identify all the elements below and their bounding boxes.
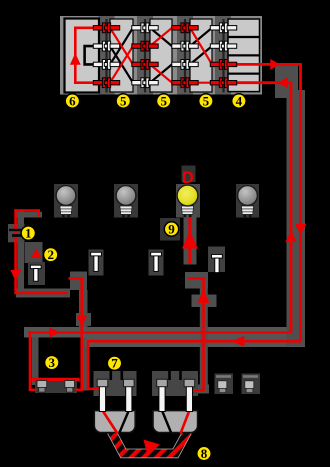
contact J1 row3 (93, 60, 119, 70)
bus arrow right (49, 327, 60, 338)
plug D right pin (184, 379, 195, 411)
contact J3 row2 (172, 41, 198, 51)
socket A plug right (65, 381, 75, 393)
contact J1 row2 (93, 41, 119, 51)
socket A box right foot wire (76, 388, 83, 391)
plug S right pin (124, 379, 135, 411)
plug D riser wire (194, 277, 205, 390)
key C plunger (151, 252, 162, 271)
svg-text:5: 5 (203, 94, 210, 109)
label circle 3 (45, 355, 59, 370)
battery top wire (14, 211, 38, 217)
entry wheel red row3 wire (226, 63, 301, 66)
lamp B (116, 186, 136, 218)
entry row3 arrow right (270, 59, 280, 70)
plug D riser up arrow (198, 289, 210, 303)
outer wire down arrow (295, 224, 307, 235)
reflector internal red wire (75, 28, 94, 83)
right outer red vertical wire (299, 63, 301, 340)
plug D left pin (157, 379, 168, 411)
junction strip J3 (177, 16, 193, 95)
socket A shorting bar (32, 378, 80, 381)
contact J4 row3 (210, 60, 236, 70)
svg-text:3: 3 (49, 355, 56, 370)
contact J4 row4 (210, 78, 236, 88)
plugboard socket A box left wire (29, 331, 36, 391)
svg-text:5: 5 (160, 94, 167, 109)
plug S red cord (103, 411, 118, 434)
label circle 5b (157, 94, 171, 109)
battery B1 plates (9, 229, 24, 237)
rotor body R3 (190, 19, 212, 92)
svg-text:1: 1 (25, 226, 32, 241)
key A to plugboard wire (69, 278, 82, 390)
label circle 5a (116, 94, 130, 109)
svg-text:9: 9 (168, 222, 175, 237)
entry row4 arrow left (277, 77, 287, 88)
key A up arrow (31, 248, 42, 258)
long red bus wire y341.2 (88, 340, 301, 343)
key D plunger (212, 255, 223, 273)
plug D black cord (162, 411, 171, 433)
rotor R1 black wires (110, 28, 133, 83)
junction strip J2 (137, 16, 153, 95)
label circle 4 (232, 94, 246, 109)
reflector U1 box (65, 19, 100, 93)
lamp D lit (177, 185, 198, 217)
label circle 2 (44, 247, 58, 262)
lamp C (238, 186, 258, 218)
shadow strips group (8, 65, 305, 396)
svg-text:6: 6 (69, 94, 76, 109)
entry wheel red row4 wire (226, 81, 291, 84)
unused socket pair 1 (216, 375, 231, 392)
contact J3 row1 (172, 23, 198, 33)
plug S base (94, 411, 135, 433)
key A wire down arrow (76, 316, 87, 326)
rotor R3 black wires (190, 28, 212, 65)
key B plunger (91, 252, 102, 271)
inner wire up arrow (285, 231, 296, 242)
contact J2 row4 (132, 78, 158, 88)
contact J1 row4 (93, 78, 119, 88)
contacts at junctions (93, 23, 236, 88)
entry wheel box (228, 19, 260, 92)
lamp A (56, 186, 76, 218)
rotor R2 red wires (150, 28, 172, 83)
plug D black leads (170, 366, 181, 380)
scrambler backdrop slab (60, 16, 262, 95)
bus2 arrow left (231, 336, 244, 347)
lamp D up arrow (182, 231, 198, 249)
rotor R3 red wires (190, 28, 212, 83)
long red bus wire y332.5 (28, 331, 291, 334)
rotor R2 black wires (150, 28, 172, 83)
contact J3 row4 (172, 78, 198, 88)
svg-text:D: D (182, 169, 194, 187)
junction strip J4 (215, 16, 231, 95)
svg-text:2: 2 (47, 247, 54, 262)
reflector red arrow up (70, 53, 81, 65)
rotor R1 red wires (110, 28, 133, 83)
lamp D wire (188, 217, 191, 264)
svg-text:8: 8 (201, 446, 208, 461)
plug S black leads (111, 366, 122, 380)
battery wire down arrow (10, 270, 21, 281)
cable arrow (144, 440, 161, 457)
label circle 9 (164, 222, 178, 237)
plug D base (153, 411, 198, 433)
rotor body R2 (150, 19, 172, 92)
plug S black cord (120, 411, 129, 433)
plug D red cord (181, 411, 190, 434)
contact J3 row3 (172, 60, 198, 70)
plug S feed wire (88, 340, 99, 389)
label circle 7 (107, 356, 121, 371)
svg-text:7: 7 (111, 356, 118, 371)
svg-text:5: 5 (120, 94, 127, 109)
contact J1 row1 (93, 23, 119, 33)
rotor body R1 (110, 19, 133, 92)
contact J2 row3 (132, 60, 158, 70)
label circle 1 (21, 226, 35, 241)
contact J4 row2 (210, 41, 236, 51)
contact J2 row1 (132, 23, 158, 33)
right inner red vertical wire (290, 81, 292, 331)
reflector internal black wire (85, 46, 94, 64)
battery bottom wire (14, 292, 68, 295)
key D stub wire (188, 277, 203, 280)
plug S left pin (97, 379, 108, 411)
key A plunger pressed (30, 265, 41, 281)
contact J4 row1 (210, 23, 236, 33)
unused socket pair 2 (243, 375, 258, 392)
label circle 5c (199, 94, 213, 109)
cable 8 hatched (112, 432, 188, 454)
contact J2 row2 (132, 41, 158, 51)
label circle 8 (197, 446, 211, 461)
battery left wire (14, 209, 17, 292)
label circle 6 (65, 94, 79, 109)
junction strip J1 (99, 16, 115, 95)
socket A plug left (37, 381, 47, 393)
svg-text:4: 4 (236, 94, 243, 109)
